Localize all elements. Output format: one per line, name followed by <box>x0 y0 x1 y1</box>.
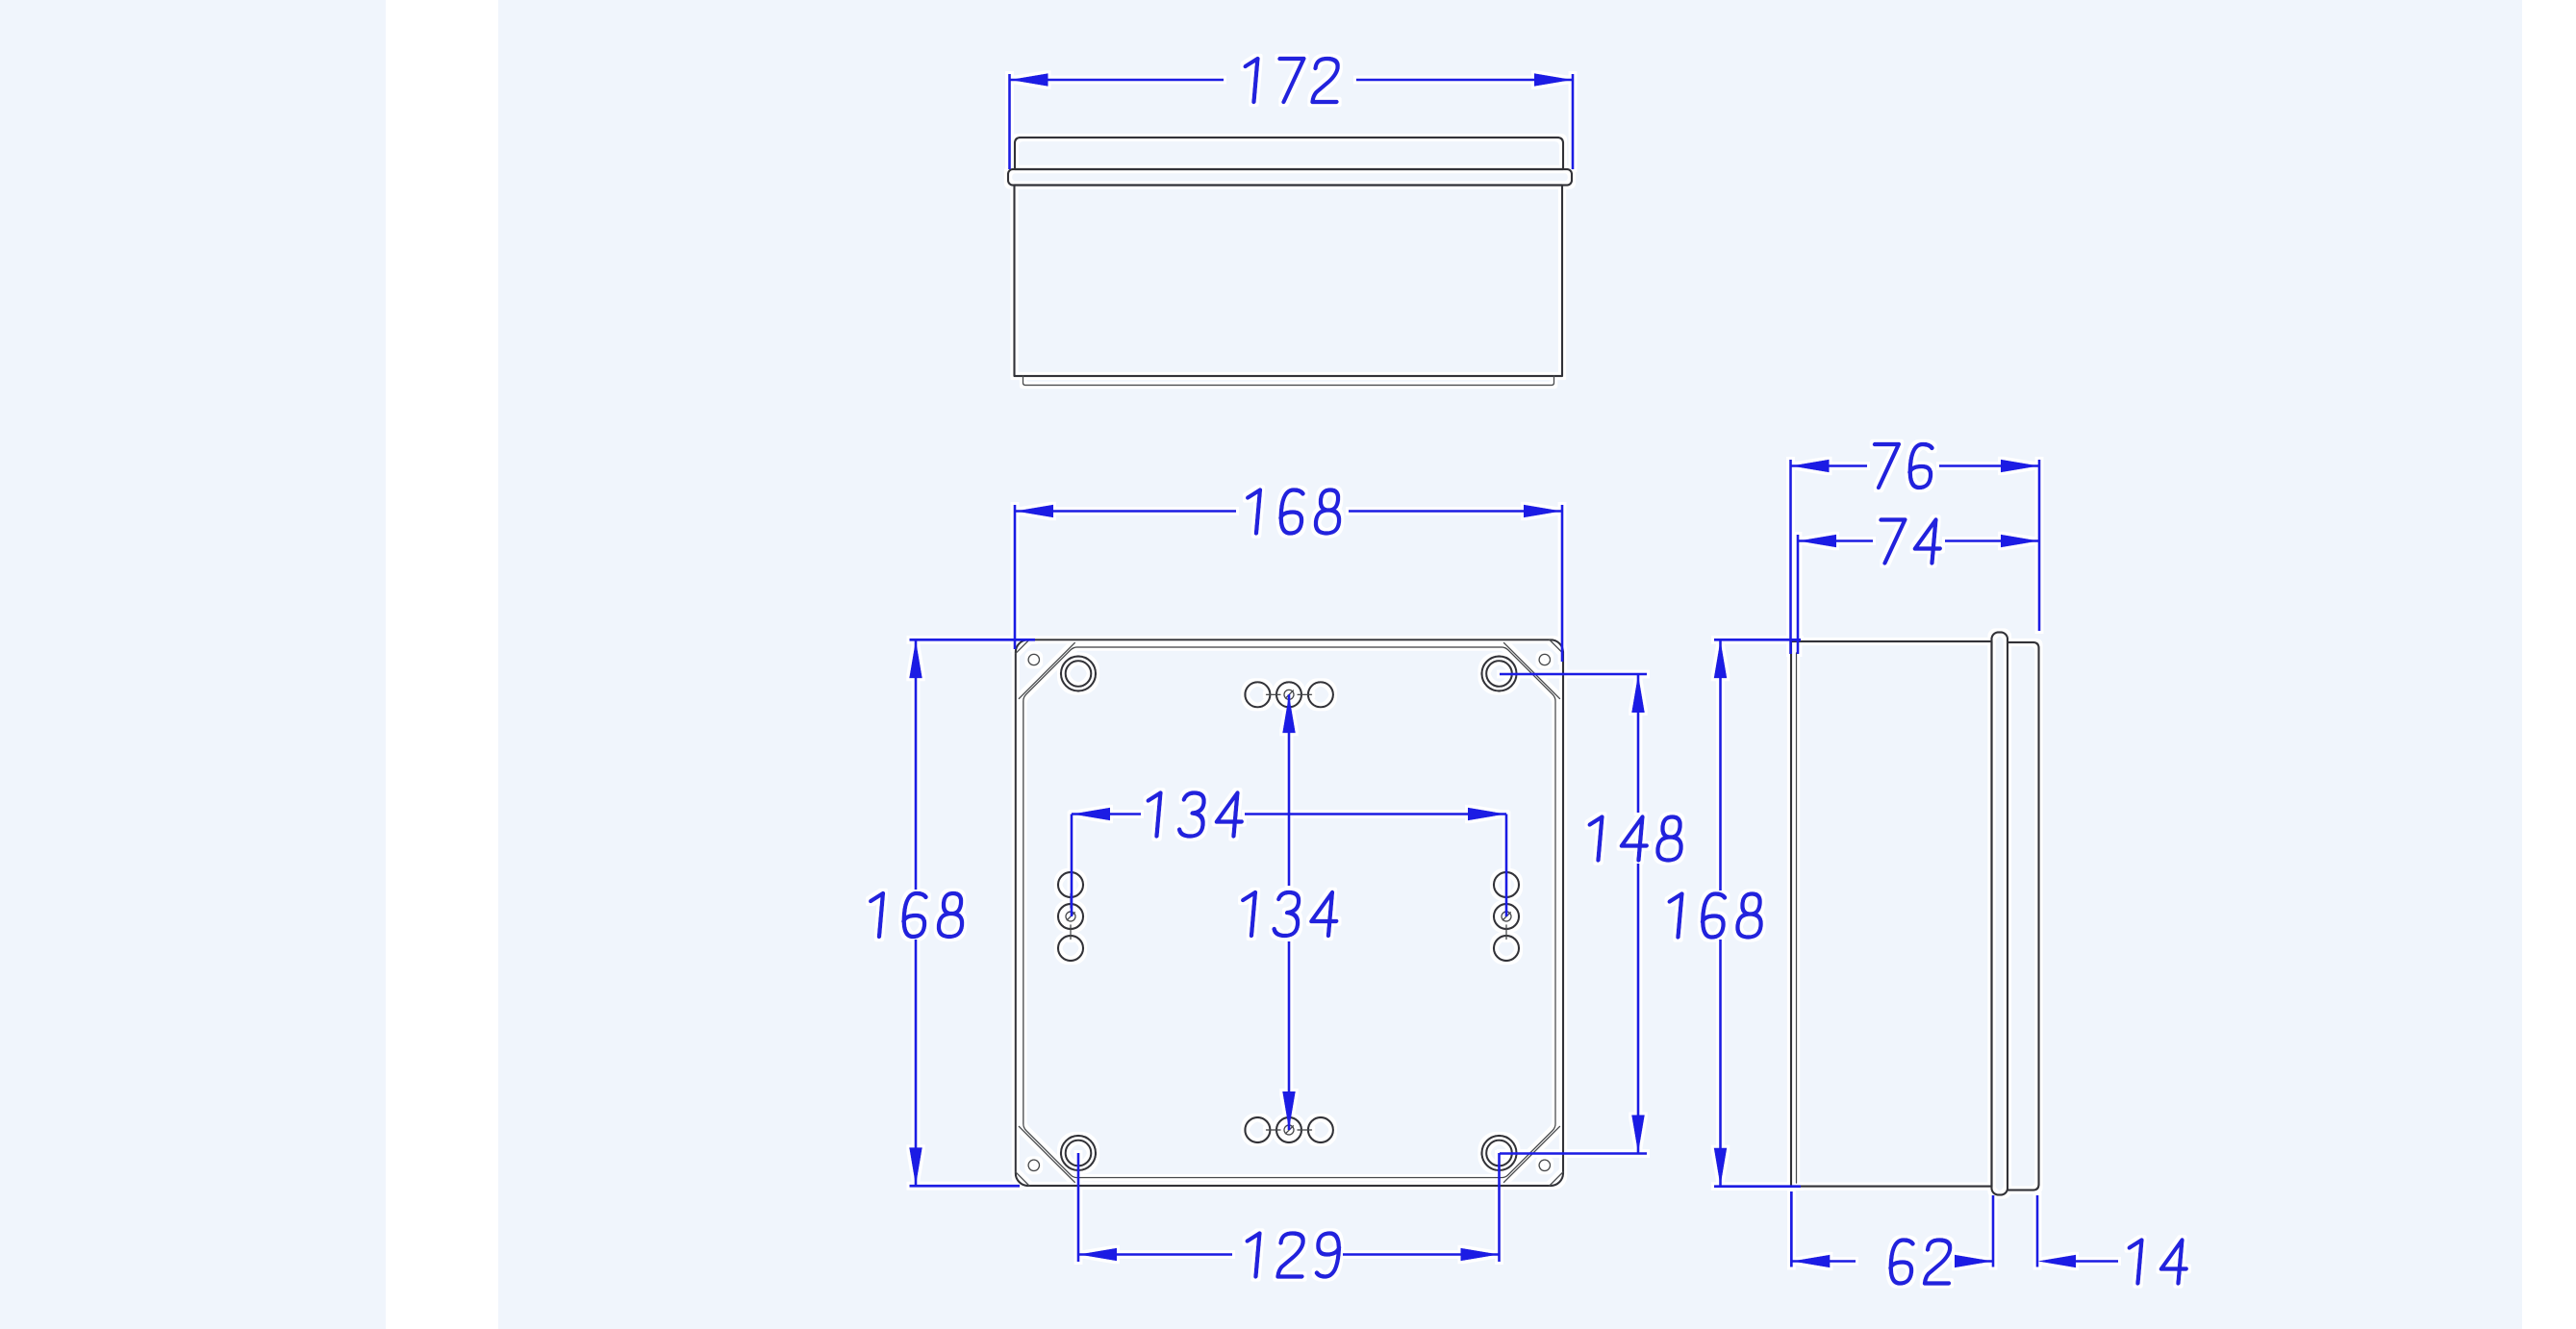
dim 74 <box>1798 520 2039 655</box>
rim band <box>1008 169 1572 186</box>
dim 168 (front width) <box>1015 490 1562 663</box>
dim 148 (right of front view) <box>1500 674 1683 1154</box>
lid top <box>1015 138 1563 169</box>
dim 14 <box>2037 1195 2188 1284</box>
dim 172 (top view width) <box>1010 59 1574 169</box>
dim 62 <box>1791 1191 1993 1284</box>
body <box>1015 186 1563 377</box>
top hole cluster <box>1245 682 1333 707</box>
bottom step <box>1023 376 1554 386</box>
side body <box>1791 641 1992 1187</box>
corner screw holes (small) <box>1028 654 1550 1170</box>
dim 76 (side total depth) <box>1791 444 2040 654</box>
dim 134 vertical <box>1240 694 1339 1130</box>
dim 129 (bottom) <box>1078 1153 1500 1277</box>
inner outline with corner chamfers <box>1023 647 1555 1178</box>
flange ring <box>1992 633 2008 1195</box>
right hole cluster <box>1494 872 1519 961</box>
background panels <box>0 0 386 1329</box>
lid screw bosses (double circles) <box>1061 657 1517 1171</box>
dim 168 (side height, right) <box>1666 639 1801 1186</box>
outer square <box>1016 639 1563 1186</box>
dim 134 horizontal <box>1072 793 1506 917</box>
dim 168 (front height, left) <box>868 639 1035 1186</box>
side lid <box>2008 642 2039 1191</box>
left hole cluster <box>1058 872 1083 961</box>
corner gusset diagonals <box>1019 643 1559 1183</box>
bottom hole cluster <box>1245 1117 1333 1142</box>
